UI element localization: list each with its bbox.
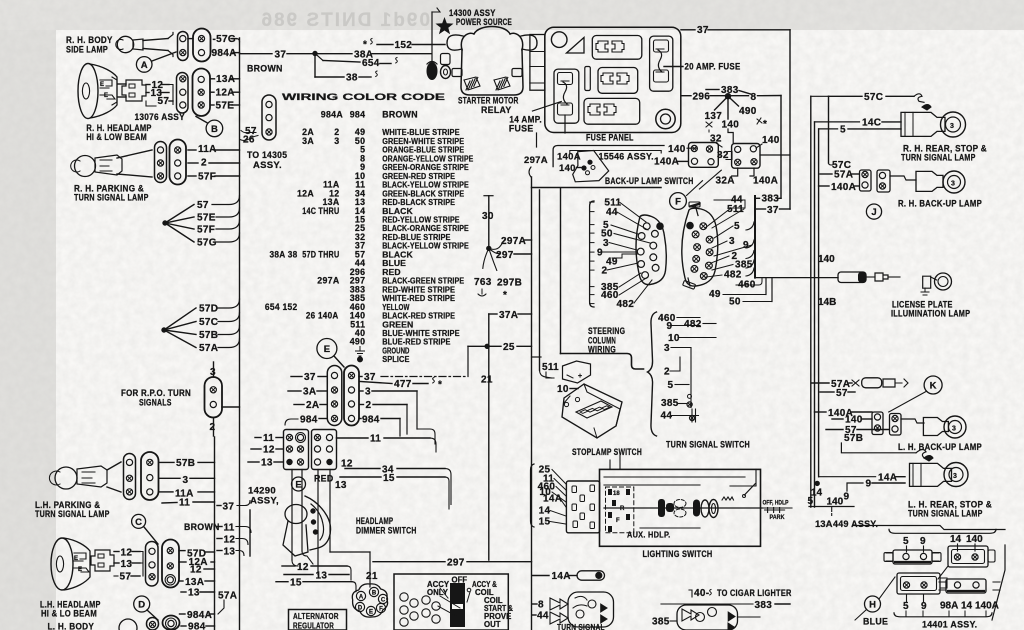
svg-text:STEERING: STEERING <box>588 326 625 336</box>
svg-text:3: 3 <box>365 387 371 398</box>
svg-text:5: 5 <box>808 496 814 507</box>
svg-text:3: 3 <box>950 123 954 130</box>
svg-text:14: 14 <box>961 601 973 612</box>
svg-text:R. H. BACK-UP LAMP: R. H. BACK-UP LAMP <box>898 199 982 209</box>
svg-text:9: 9 <box>667 321 673 332</box>
svg-text:57E: 57E <box>216 101 235 112</box>
svg-text:14A: 14A <box>878 473 897 484</box>
svg-text:13: 13 <box>261 458 273 469</box>
svg-text:57: 57 <box>158 96 170 107</box>
svg-text:TURN SIGNAL LAMP: TURN SIGNAL LAMP <box>901 153 976 163</box>
svg-text:12A: 12A <box>297 188 314 198</box>
svg-text:14: 14 <box>950 534 962 545</box>
svg-text:57C: 57C <box>864 92 883 103</box>
svg-text:490: 490 <box>350 337 366 347</box>
svg-text:*: * <box>438 380 442 391</box>
svg-text:09d1 DNITS 986: 09d1 DNITS 986 <box>259 10 430 31</box>
svg-text:13: 13 <box>316 571 328 582</box>
svg-text:3: 3 <box>603 238 609 249</box>
svg-text:297A: 297A <box>317 276 340 286</box>
svg-text:2: 2 <box>210 422 216 433</box>
svg-text:2: 2 <box>664 367 670 378</box>
svg-text:C: C <box>135 517 142 528</box>
svg-text:8: 8 <box>538 600 544 611</box>
svg-text:14: 14 <box>539 506 551 517</box>
svg-text:57B: 57B <box>176 458 195 469</box>
svg-text:57D: 57D <box>199 304 218 315</box>
svg-text:984A: 984A <box>187 610 212 621</box>
svg-text:37: 37 <box>223 502 235 513</box>
svg-text:3: 3 <box>183 475 189 486</box>
svg-text:SIGNALS: SIGNALS <box>139 398 172 408</box>
svg-text:HI & LOW BEAM: HI & LOW BEAM <box>86 132 147 142</box>
svg-text:140A: 140A <box>831 182 856 193</box>
svg-text:REGULATOR: REGULATOR <box>293 621 334 630</box>
svg-text:BROWN: BROWN <box>382 110 418 120</box>
svg-text:14401 ASSY.: 14401 ASSY. <box>922 620 977 630</box>
svg-text:TO CIGAR LIGHTER: TO CIGAR LIGHTER <box>717 588 792 598</box>
svg-text:13A: 13A <box>815 519 833 530</box>
svg-text:57A: 57A <box>218 591 237 602</box>
svg-text:3: 3 <box>953 473 957 480</box>
svg-text:FOR R.P.O. TURN: FOR R.P.O. TURN <box>121 388 191 398</box>
svg-text:984: 984 <box>300 415 318 426</box>
svg-text:57: 57 <box>197 200 209 211</box>
svg-text:F: F <box>379 607 383 613</box>
svg-text:*: * <box>763 119 767 130</box>
svg-text:482: 482 <box>617 299 635 310</box>
svg-text:15: 15 <box>383 473 395 484</box>
svg-text:SPLICE: SPLICE <box>382 354 409 364</box>
svg-text:13: 13 <box>121 559 133 570</box>
svg-text:13: 13 <box>188 588 200 599</box>
svg-text:H: H <box>869 599 876 610</box>
svg-text:11: 11 <box>263 433 274 444</box>
svg-text:12: 12 <box>224 535 236 546</box>
svg-text:9: 9 <box>921 601 927 612</box>
svg-text:L. H. BODY: L. H. BODY <box>48 622 95 630</box>
svg-text:ALTERNATOR: ALTERNATOR <box>293 611 339 621</box>
svg-text:TURN SIGNAL: TURN SIGNAL <box>557 623 605 630</box>
svg-text:50: 50 <box>729 297 741 308</box>
svg-text:297B: 297B <box>497 278 522 289</box>
svg-text:477: 477 <box>394 379 412 390</box>
svg-text:3: 3 <box>952 426 956 433</box>
svg-text:K: K <box>930 380 937 391</box>
svg-text:654 152: 654 152 <box>265 302 298 312</box>
svg-text:B: B <box>372 591 377 597</box>
svg-text:14A: 14A <box>552 571 571 582</box>
svg-text:B: B <box>211 124 218 135</box>
svg-text:9: 9 <box>597 248 603 259</box>
svg-text:38A 38: 38A 38 <box>270 249 298 259</box>
svg-text:BLUE: BLUE <box>863 617 888 627</box>
svg-text:5: 5 <box>668 380 674 391</box>
svg-text:38: 38 <box>346 73 358 84</box>
svg-text:15: 15 <box>539 517 551 528</box>
svg-text:13076 ASSY: 13076 ASSY <box>135 112 186 123</box>
svg-text:57F: 57F <box>197 225 215 236</box>
svg-text:STOPLAMP SWITCH: STOPLAMP SWITCH <box>572 447 642 457</box>
svg-text:11: 11 <box>224 523 235 534</box>
svg-text:12: 12 <box>297 562 309 573</box>
svg-text:5: 5 <box>734 221 740 232</box>
svg-text:TURN SIGNAL SWITCH: TURN SIGNAL SWITCH <box>666 440 750 450</box>
svg-text:9: 9 <box>743 240 749 251</box>
svg-text:2: 2 <box>201 158 207 169</box>
svg-text:25: 25 <box>503 342 515 353</box>
svg-text:POWER SOURCE: POWER SOURCE <box>456 17 512 27</box>
svg-text:21: 21 <box>366 571 378 582</box>
svg-text:297A: 297A <box>501 236 526 247</box>
svg-text:STARTER MOTOR: STARTER MOTOR <box>458 96 519 106</box>
svg-text:49: 49 <box>709 289 721 300</box>
svg-text:57: 57 <box>120 572 132 583</box>
svg-text:140: 140 <box>827 497 844 508</box>
svg-text:BACK-UP LAMP SWITCH: BACK-UP LAMP SWITCH <box>605 176 694 186</box>
svg-text:15546 ASSY.: 15546 ASSY. <box>599 152 654 163</box>
svg-text:984: 984 <box>350 110 366 120</box>
svg-text:57C: 57C <box>199 317 218 328</box>
svg-text:385: 385 <box>661 398 679 409</box>
svg-text:12: 12 <box>121 548 133 559</box>
svg-text:15: 15 <box>290 578 302 589</box>
svg-text:984: 984 <box>362 415 380 426</box>
svg-text:DIMMER SWITCH: DIMMER SWITCH <box>356 526 417 536</box>
svg-text:297: 297 <box>447 558 465 569</box>
svg-text:30: 30 <box>482 211 494 222</box>
svg-text:TURN SIGNAL LAMP: TURN SIGNAL LAMP <box>35 509 110 519</box>
svg-text:140: 140 <box>722 120 740 131</box>
svg-text:FUSE: FUSE <box>509 124 534 134</box>
svg-text:E: E <box>100 82 104 88</box>
svg-text:TURN SIGNAL LAMP: TURN SIGNAL LAMP <box>74 193 149 203</box>
svg-text:AUX. HDLP.: AUX. HDLP. <box>627 531 671 540</box>
svg-text:13: 13 <box>224 547 236 558</box>
svg-text:37: 37 <box>767 205 779 216</box>
svg-text:ILLUMINATION LAMP: ILLUMINATION LAMP <box>891 309 970 319</box>
svg-text:984: 984 <box>188 622 206 630</box>
svg-text:140A: 140A <box>654 157 679 168</box>
svg-text:5: 5 <box>903 536 909 547</box>
svg-text:9: 9 <box>866 479 872 490</box>
svg-text:L. H. BACK-UP LAMP: L. H. BACK-UP LAMP <box>898 442 982 452</box>
svg-text:140: 140 <box>845 415 863 426</box>
svg-text:PARK: PARK <box>770 514 785 521</box>
svg-text:E: E <box>324 344 330 355</box>
svg-text:40-: 40- <box>694 588 709 599</box>
svg-text:490: 490 <box>739 106 757 117</box>
svg-text:WIRING COLOR CODE: WIRING COLOR CODE <box>282 92 445 103</box>
svg-text:20 AMP. FUSE: 20 AMP. FUSE <box>685 62 741 72</box>
svg-text:3: 3 <box>729 236 735 247</box>
svg-text:ASSY.: ASSY. <box>253 160 282 171</box>
svg-text:F: F <box>616 518 620 524</box>
svg-text:2A: 2A <box>306 400 319 411</box>
svg-text:511: 511 <box>542 362 559 373</box>
svg-text:14B: 14B <box>818 297 836 308</box>
svg-text:E: E <box>369 610 373 616</box>
svg-text:18: 18 <box>613 491 620 497</box>
svg-text:OFF, HDLP: OFF, HDLP <box>763 500 789 507</box>
svg-text:57B: 57B <box>199 330 218 341</box>
svg-text:3: 3 <box>664 343 670 354</box>
svg-text:3A: 3A <box>303 387 316 398</box>
svg-text:F: F <box>675 196 681 207</box>
svg-text:383: 383 <box>762 194 780 205</box>
svg-text:37A: 37A <box>499 310 518 321</box>
svg-text:9: 9 <box>844 492 850 503</box>
svg-text:OUT: OUT <box>484 620 501 629</box>
svg-text:57D THRU: 57D THRU <box>302 249 339 259</box>
svg-text:9: 9 <box>920 536 926 547</box>
svg-text:449 ASSY.: 449 ASSY. <box>833 519 878 530</box>
svg-text:385: 385 <box>652 617 670 628</box>
svg-text:D: D <box>358 606 363 612</box>
svg-text:57G: 57G <box>197 238 217 249</box>
svg-text:21: 21 <box>481 375 493 386</box>
svg-text:482: 482 <box>684 319 702 330</box>
svg-text:E: E <box>78 567 82 573</box>
svg-text:13A: 13A <box>185 577 204 588</box>
svg-text:984A: 984A <box>321 110 344 120</box>
svg-text:*: * <box>503 290 507 301</box>
svg-text:10: 10 <box>557 384 569 395</box>
svg-text:LIGHTING SWITCH: LIGHTING SWITCH <box>643 549 713 559</box>
svg-text:D: D <box>138 599 145 610</box>
svg-text:37: 37 <box>275 50 287 61</box>
svg-text:BROWN: BROWN <box>247 64 283 74</box>
svg-text:+: + <box>578 373 582 380</box>
svg-text:E: E <box>295 479 301 490</box>
svg-text:32A: 32A <box>716 176 735 187</box>
svg-text:44: 44 <box>606 207 618 218</box>
svg-text:C: C <box>381 598 386 604</box>
svg-text:14C: 14C <box>862 118 881 129</box>
svg-text:13: 13 <box>335 480 347 491</box>
svg-text:140: 140 <box>762 135 780 146</box>
svg-text:-57G: -57G <box>213 34 236 45</box>
svg-text:763: 763 <box>474 277 492 288</box>
svg-text:3A: 3A <box>302 136 314 146</box>
svg-text:J: J <box>871 207 876 218</box>
svg-text:14A: 14A <box>543 494 562 505</box>
svg-text:5: 5 <box>903 601 909 612</box>
svg-text:37: 37 <box>304 372 316 383</box>
svg-text:297A: 297A <box>524 155 548 166</box>
svg-text:26 140A: 26 140A <box>306 311 339 321</box>
svg-text:140: 140 <box>668 144 686 155</box>
svg-text:8: 8 <box>751 92 757 103</box>
svg-text:5: 5 <box>840 125 846 136</box>
svg-text:3: 3 <box>951 181 955 188</box>
svg-text:11: 11 <box>370 434 381 445</box>
svg-text:12: 12 <box>263 445 275 456</box>
svg-text:137: 137 <box>705 111 723 122</box>
svg-text:984A: 984A <box>212 48 237 59</box>
svg-text:3: 3 <box>334 136 339 146</box>
svg-text:152: 152 <box>395 40 413 51</box>
svg-text:383: 383 <box>721 85 739 96</box>
svg-text:A: A <box>359 595 364 601</box>
svg-text:14C THRU: 14C THRU <box>302 206 339 216</box>
svg-text:*: * <box>363 40 367 51</box>
svg-text:R: R <box>620 506 625 512</box>
svg-text:2: 2 <box>602 266 608 277</box>
svg-text:57B: 57B <box>844 433 863 444</box>
svg-text:R. H. BODY: R. H. BODY <box>66 35 113 45</box>
svg-text:297: 297 <box>496 250 514 261</box>
svg-text:12A: 12A <box>216 88 235 99</box>
svg-text:A: A <box>141 60 148 71</box>
svg-text:HEADLAMP: HEADLAMP <box>356 516 393 526</box>
svg-text:FUSE PANEL: FUSE PANEL <box>586 133 634 143</box>
svg-text:296: 296 <box>693 92 711 103</box>
svg-text:E: E <box>74 556 78 562</box>
svg-text:140: 140 <box>818 254 835 265</box>
svg-text:37: 37 <box>697 25 709 36</box>
svg-text:ASSY,: ASSY, <box>250 496 279 507</box>
svg-text:11: 11 <box>179 498 190 509</box>
svg-text:383: 383 <box>755 600 773 611</box>
svg-text:HI & LO BEAM: HI & LO BEAM <box>41 609 97 619</box>
svg-text:140: 140 <box>966 534 983 545</box>
svg-text:12: 12 <box>190 565 202 576</box>
svg-text:57A: 57A <box>199 343 218 354</box>
svg-text:RELAY: RELAY <box>481 105 512 115</box>
svg-text:2: 2 <box>366 400 372 411</box>
svg-text:57E: 57E <box>197 213 216 224</box>
svg-text:TURN SIGNAL LAMP: TURN SIGNAL LAMP <box>908 509 983 519</box>
svg-text:BROWN: BROWN <box>184 522 220 532</box>
svg-text:57: 57 <box>836 388 848 399</box>
svg-text:E: E <box>104 93 108 99</box>
svg-text:654: 654 <box>362 58 380 69</box>
svg-text:140A: 140A <box>753 176 778 187</box>
svg-text:57A: 57A <box>834 170 853 181</box>
svg-text:44: 44 <box>537 611 549 622</box>
svg-text:57F: 57F <box>198 172 216 183</box>
svg-text:SIDE LAMP: SIDE LAMP <box>66 45 108 55</box>
svg-text:98A: 98A <box>940 601 958 612</box>
